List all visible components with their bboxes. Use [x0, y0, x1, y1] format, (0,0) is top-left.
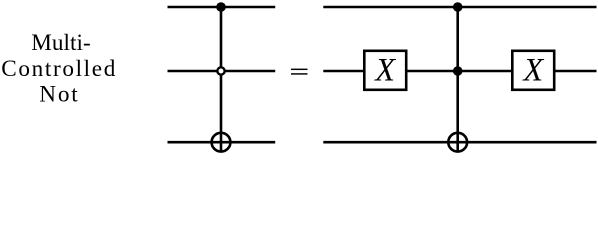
control dot (filled) on q1, right circuit — [453, 66, 463, 76]
svg-text:Not: Not — [39, 82, 78, 108]
vertical connector (right circuit) — [456, 7, 459, 152]
wire q1 (right circuit, middle) right segment — [555, 70, 597, 73]
wire q2 (right circuit, bottom) — [323, 141, 596, 144]
gate box X (first) — [364, 51, 406, 90]
vertical connector (left circuit) — [220, 7, 223, 152]
svg-text:Multi-: Multi- — [31, 30, 91, 56]
control dot (filled) on q0, left circuit — [216, 2, 226, 12]
svg-text:X: X — [373, 53, 396, 89]
wire q2 (left circuit, bottom) — [168, 141, 276, 144]
open control (anti-control) on q1, left circuit — [217, 67, 224, 74]
CNOT target on q2, left circuit — [212, 133, 231, 152]
control dot (filled) on q0, right circuit — [453, 2, 463, 12]
wire q1 (right circuit, middle) centre segment — [407, 70, 513, 73]
wire q1 (right circuit, middle) left segment — [323, 70, 364, 73]
svg-text:Controlled: Controlled — [1, 56, 115, 82]
wire q0 (left circuit, top) — [168, 6, 276, 9]
equals sign — [291, 69, 308, 75]
label "Multi-Controlled Not" — [1, 30, 115, 108]
svg-text:X: X — [521, 53, 544, 89]
gate box X (second) — [512, 51, 554, 90]
wire q0 (right circuit, top) — [323, 6, 596, 9]
wire q1 (left circuit, middle) — [168, 70, 276, 73]
CNOT target on q2, right circuit — [448, 133, 467, 152]
